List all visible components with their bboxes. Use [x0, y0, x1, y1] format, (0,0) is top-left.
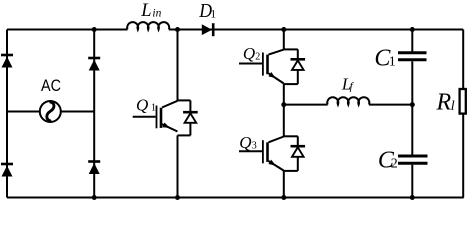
- antiparallel diode of Q1: [178, 100, 198, 135]
- junction dot midpoint: [281, 102, 286, 107]
- inductor Lf: [327, 97, 369, 104]
- antiparallel diode of Q3: [284, 136, 305, 171]
- bridge diode top-left: [1, 55, 13, 68]
- wire right leg top: [462, 30, 464, 89]
- svg-text:1: 1: [210, 8, 216, 20]
- wire right leg bottom: [462, 114, 464, 198]
- wire second leg: [93, 30, 95, 198]
- bridge diode bottom-right: [88, 162, 100, 175]
- wire left leg: [6, 30, 8, 198]
- wire half-bridge middle: [283, 84, 285, 136]
- wire AC right: [61, 111, 94, 113]
- svg-text:f: f: [350, 80, 355, 92]
- transistor Q3 (IGBT): [239, 137, 284, 171]
- svg-text:L: L: [140, 1, 151, 21]
- junction dot cap mid: [410, 102, 415, 107]
- transistor Q2 (IGBT): [239, 50, 284, 84]
- wire Lf to capacitor leg: [369, 104, 412, 106]
- junction dot bottom cap leg: [410, 195, 415, 200]
- wire bottom rail: [7, 197, 464, 199]
- svg-text:3: 3: [252, 140, 257, 151]
- wire Q1 emitter to bottom rail: [177, 135, 179, 197]
- capacitor C1: [398, 53, 427, 60]
- AC source: [40, 101, 61, 122]
- wire capacitor leg middle: [411, 61, 413, 154]
- svg-text:2: 2: [391, 157, 398, 172]
- svg-text:Q: Q: [239, 133, 251, 152]
- junction dot bottom half-bridge leg: [281, 195, 286, 200]
- wire top rail right segment: [169, 29, 463, 31]
- inductor Lin: [127, 22, 169, 29]
- capacitor C2: [398, 156, 428, 163]
- wire half-bridge bottom: [283, 171, 285, 198]
- svg-text:1: 1: [151, 103, 156, 114]
- diode D1: [202, 23, 213, 36]
- svg-text:Q: Q: [243, 44, 255, 63]
- junction dot bottom Q1 leg: [175, 195, 180, 200]
- svg-text:in: in: [152, 8, 161, 20]
- wire capacitor leg top: [411, 30, 413, 53]
- junction dot bottom second leg: [92, 195, 97, 200]
- wire Q1 collector lead: [177, 30, 179, 101]
- wire top rail left segment: [7, 29, 128, 31]
- bridge diode top-right: [88, 58, 100, 71]
- junction dot Lin-D1-Q1: [175, 27, 180, 32]
- wire capacitor leg bottom: [411, 165, 413, 198]
- svg-text:R: R: [436, 90, 452, 116]
- antiparallel diode of Q2: [284, 49, 305, 84]
- svg-text:2: 2: [255, 51, 260, 62]
- transistor Q1 (IGBT): [133, 101, 178, 132]
- junction dot top second leg: [92, 27, 97, 32]
- resistor Rl: [460, 89, 466, 114]
- svg-text:l: l: [451, 99, 455, 114]
- bridge diode bottom-left: [1, 164, 13, 177]
- wire AC left: [7, 111, 40, 113]
- junction dot top rail half-bridge: [281, 27, 286, 32]
- wire half-bridge top: [283, 30, 285, 50]
- wire midpoint to Lf: [284, 104, 328, 106]
- svg-text:AC: AC: [41, 76, 61, 95]
- junction dot top rail cap leg: [410, 27, 415, 32]
- svg-text:Q: Q: [136, 95, 148, 114]
- svg-text:1: 1: [389, 54, 396, 69]
